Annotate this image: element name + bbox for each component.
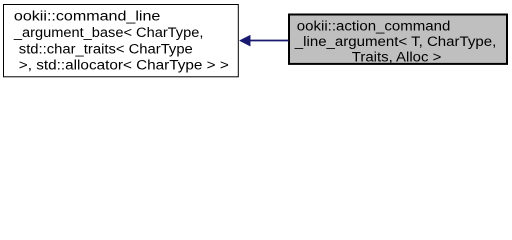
svg-text:_argument_base< CharType,: _argument_base< CharType,: [13, 25, 204, 41]
inheritance arrowhead: [240, 35, 251, 46]
svg-text:ookii::command_line: ookii::command_line: [14, 9, 161, 25]
inheritance arrow shaft: [250, 40, 289, 42]
svg-text:std::char_traits< CharType: std::char_traits< CharType: [19, 41, 193, 57]
svg-text:>, std::allocator< CharType >: >, std::allocator< CharType > >: [19, 58, 229, 74]
node: base class box ookii::command_line_argument_base: [4, 5, 239, 77]
node: derived class box ookii::action_command_line_argument (current, grey): [289, 15, 507, 64]
svg-text:_line_argument< T, CharType,: _line_argument< T, CharType,: [294, 34, 497, 50]
svg-text:Traits, Alloc >: Traits, Alloc >: [352, 50, 442, 66]
svg-text:ookii::action_command: ookii::action_command: [297, 18, 451, 34]
